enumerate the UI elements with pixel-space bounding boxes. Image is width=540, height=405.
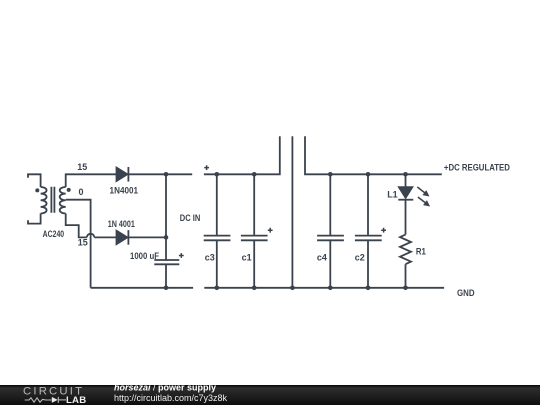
- transformer T1 secondary winding: [60, 187, 66, 214]
- svg-text:c4: c4: [317, 253, 327, 263]
- junction dot C5 ground: [164, 286, 169, 291]
- wire regulator center pin: [291, 136, 293, 287]
- junction dot node DC IN top: [164, 172, 169, 177]
- svg-text:0: 0: [78, 187, 83, 197]
- wire secondary bottom lead stepped: [66, 214, 87, 238]
- svg-text:1N 4001: 1N 4001: [108, 219, 135, 229]
- transformer T1 primary polarity dot: [35, 188, 39, 192]
- wire bottom-right ground rail: [204, 287, 444, 289]
- CircuitLab logo resistor squiggle and diode: [25, 397, 66, 403]
- junction dot c4 top: [328, 172, 333, 177]
- svg-text:L1: L1: [387, 190, 398, 200]
- plus marker node DC regulated input: [204, 165, 209, 170]
- transformer T1 primary winding: [41, 187, 47, 214]
- wire hop over 0 net: [87, 234, 94, 238]
- wire C5 bottom lead: [165, 264, 167, 288]
- diode D1 1N4001: [117, 168, 128, 181]
- capacitor c1 bottom lead: [253, 240, 255, 287]
- svg-text:R1: R1: [416, 246, 426, 256]
- capacitor c4 top lead: [329, 174, 331, 235]
- svg-text:horsezai / power supply: horsezai / power supply: [114, 383, 216, 393]
- junction dot c2 top: [366, 172, 371, 177]
- wire regulator input rail: [204, 136, 280, 174]
- capacitor c2 plates: [355, 236, 382, 241]
- LED L1 arrow 1: [417, 187, 428, 196]
- LED L1 triangle: [399, 187, 412, 198]
- capacitor c2 top lead: [367, 174, 369, 235]
- junction dot c4 bottom: [328, 286, 333, 291]
- transformer T1 secondary polarity dot: [67, 188, 71, 192]
- svg-text:http://circuitlab.com/c7y3z8k: http://circuitlab.com/c7y3z8k: [114, 393, 228, 403]
- resistor R1 zigzag: [400, 235, 411, 265]
- svg-text:15: 15: [78, 238, 88, 248]
- plus marker capacitor C5: [179, 253, 184, 258]
- junction dot D2 output: [164, 235, 169, 240]
- svg-text:+DC REGULATED: +DC REGULATED: [444, 163, 510, 173]
- junction dot regulator ground: [290, 286, 295, 291]
- plus marker capacitor c2: [381, 228, 386, 233]
- capacitor c3 plates: [204, 236, 231, 241]
- capacitor c1 plates: [241, 236, 268, 241]
- wire primary top lead: [28, 174, 41, 187]
- wire LED to R1: [405, 200, 407, 235]
- capacitor c3 bottom lead: [216, 240, 218, 287]
- diode D2 1N4001: [117, 231, 128, 244]
- svg-text:LAB: LAB: [66, 395, 86, 405]
- wire secondary top lead to D1: [66, 174, 117, 187]
- svg-text:c1: c1: [242, 253, 252, 263]
- junction dot c3 top: [215, 172, 220, 177]
- transformer T1 core: [51, 187, 54, 213]
- junction dot c1 top: [252, 172, 257, 177]
- svg-text:GND: GND: [457, 288, 475, 298]
- wire secondary center tap (0): [66, 200, 91, 288]
- wire regulator output rail: [305, 136, 442, 174]
- LED L1 arrow 2: [418, 197, 429, 206]
- wire LED branch top: [405, 174, 407, 187]
- junction dot c3 bottom: [215, 286, 220, 291]
- plus marker capacitor c1: [268, 228, 273, 233]
- wire R1 to ground rail: [405, 264, 407, 288]
- svg-text:15: 15: [77, 162, 87, 172]
- diode D1 cathode bar: [127, 167, 129, 182]
- wire D1 cathode to node: [128, 173, 192, 175]
- LED L1 cathode bar: [398, 199, 413, 201]
- capacitor c1 top lead: [253, 174, 255, 235]
- svg-text:DC IN: DC IN: [180, 213, 201, 223]
- wire D2 cathode to rail: [128, 236, 166, 238]
- capacitor c4 bottom lead: [329, 240, 331, 287]
- junction dot c1 bottom: [252, 286, 257, 291]
- capacitor C5 1000uF plates: [154, 260, 179, 264]
- wire hop to D2 anode: [94, 236, 116, 238]
- svg-text:1N4001: 1N4001: [110, 185, 139, 195]
- svg-text:c3: c3: [205, 253, 215, 263]
- wire DC IN positive rail vertical: [165, 174, 167, 260]
- junction dot R1 bottom: [403, 286, 408, 291]
- wire primary bottom lead: [28, 214, 41, 224]
- junction dot c2 bottom: [366, 286, 371, 291]
- svg-text:c2: c2: [355, 253, 365, 263]
- capacitor c2 bottom lead: [367, 240, 369, 287]
- capacitor c3 top lead: [216, 174, 218, 235]
- svg-text:1000 uF: 1000 uF: [130, 251, 159, 261]
- wire bottom-left ground rail: [91, 287, 194, 289]
- svg-text:AC240: AC240: [43, 229, 65, 239]
- junction dot LED top: [403, 172, 408, 177]
- capacitor c4 plates: [317, 236, 344, 241]
- diode D2 cathode bar: [127, 230, 129, 245]
